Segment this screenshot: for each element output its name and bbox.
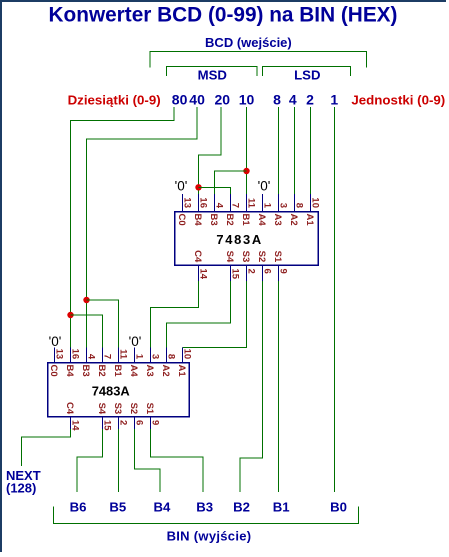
U1 pin 4 stub [214, 194, 216, 212]
svg-text:8: 8 [273, 91, 281, 107]
U1 pin 10 stub [310, 194, 312, 212]
U1 pin 16 stub [198, 194, 200, 212]
svg-text:10: 10 [239, 91, 255, 107]
wire 40 to U2.B3 [87, 107, 198, 348]
svg-text:S3: S3 [240, 251, 251, 263]
svg-text:MSD: MSD [198, 67, 227, 82]
svg-text:B1: B1 [112, 365, 123, 378]
svg-text:A4: A4 [128, 365, 139, 378]
svg-text:B3: B3 [196, 500, 213, 515]
svg-text:A2: A2 [160, 365, 171, 377]
U2 pin 1 stub [134, 348, 136, 364]
svg-text:8: 8 [165, 354, 176, 359]
svg-text:BIN (wyjście): BIN (wyjście) [167, 528, 252, 543]
wire branch 10 to U1.B3 [215, 171, 247, 195]
svg-text:3: 3 [277, 203, 288, 208]
svg-text:1: 1 [330, 91, 338, 107]
svg-text:B2: B2 [224, 214, 235, 226]
svg-text:3: 3 [149, 354, 160, 359]
svg-text:7: 7 [101, 354, 112, 359]
bracket LSD [263, 66, 351, 76]
svg-text:13: 13 [53, 349, 64, 360]
svg-text:6: 6 [133, 420, 144, 425]
wire 4 to U1.A2 [294, 107, 296, 195]
wire 1 to output B0 [334, 107, 336, 492]
U2 pin 7 stub [102, 348, 104, 364]
svg-text:S3: S3 [112, 403, 123, 415]
svg-text:6: 6 [261, 269, 272, 274]
bracket BCD (wejscie) [150, 51, 367, 67]
wire U2.S3 to output B5 [118, 429, 120, 492]
wire branch 80 to U2.B2 [71, 315, 103, 348]
U2 pin 15 stub [102, 417, 104, 430]
svg-text:B4: B4 [192, 214, 203, 227]
page border top [0, 0, 446, 2]
svg-text:LSD: LSD [294, 67, 320, 82]
svg-text:'0': '0' [175, 178, 188, 193]
svg-text:A2: A2 [288, 214, 299, 226]
svg-text:C4: C4 [64, 402, 75, 415]
svg-text:B3: B3 [208, 214, 219, 226]
svg-text:C0: C0 [48, 365, 59, 377]
U1 pin 6 stub [262, 265, 264, 282]
svg-text:B6: B6 [70, 500, 87, 515]
U1 pin 2 stub [246, 265, 248, 282]
U1 pin 8 stub [294, 194, 296, 212]
svg-text:9: 9 [149, 420, 160, 425]
svg-text:A4: A4 [256, 214, 267, 227]
svg-text:S4: S4 [224, 251, 235, 263]
svg-text:11: 11 [117, 349, 128, 360]
svg-text:S2: S2 [256, 251, 267, 263]
svg-text:16: 16 [69, 349, 80, 360]
U1 pin 9 stub [278, 265, 280, 282]
svg-text:C4: C4 [192, 250, 203, 263]
svg-text:B3: B3 [80, 365, 91, 377]
svg-text:15: 15 [229, 269, 240, 280]
svg-text:13: 13 [181, 197, 192, 208]
svg-text:4: 4 [85, 354, 96, 360]
svg-text:B0: B0 [330, 500, 347, 515]
wire U1.C4 to U2.A3 [151, 281, 199, 348]
svg-text:Jednostki (0-9): Jednostki (0-9) [351, 92, 445, 107]
wire 8 to U1.A3 [278, 107, 280, 195]
svg-text:10: 10 [181, 349, 192, 360]
svg-text:A1: A1 [304, 214, 315, 227]
svg-text:9: 9 [277, 269, 288, 274]
svg-text:(128): (128) [6, 481, 36, 496]
svg-text:B4: B4 [64, 365, 75, 378]
svg-text:'0': '0' [258, 178, 271, 193]
svg-text:11: 11 [245, 198, 256, 209]
U1 pin 3 stub [278, 194, 280, 212]
bracket BIN (wyjscie) [54, 507, 359, 524]
U1 pin 1 stub [262, 194, 264, 212]
svg-text:14: 14 [197, 269, 208, 280]
U2 pin 10 stub [182, 348, 184, 364]
svg-text:'0': '0' [49, 334, 62, 349]
U2 pin 16 stub [70, 348, 72, 364]
svg-text:A1: A1 [176, 365, 187, 378]
IC U1 7483A box [175, 212, 319, 266]
U2 pin 13 stub [54, 348, 56, 364]
svg-text:B4: B4 [153, 500, 171, 515]
wire U2.C4 to NEXT [22, 429, 71, 466]
svg-text:Konwerter BCD (0-99) na BIN (H: Konwerter BCD (0-99) na BIN (HEX) [49, 4, 398, 27]
svg-text:2: 2 [245, 269, 256, 274]
svg-text:40: 40 [189, 91, 205, 107]
U1 pin 7 stub [230, 194, 232, 212]
svg-text:A3: A3 [144, 365, 155, 377]
junction dot 10/U1.B1 [243, 168, 249, 174]
svg-text:7483A: 7483A [92, 383, 130, 398]
IC U2 7483A box [48, 363, 190, 417]
U1 pin 11 stub [246, 194, 248, 212]
wire 20 to U1.B4 [199, 107, 222, 195]
svg-text:B5: B5 [109, 500, 126, 515]
U1 pin 14 stub [198, 265, 200, 282]
wire U2.S1 to output B3 [151, 429, 204, 492]
svg-text:S4: S4 [96, 403, 107, 415]
U2 pin 11 stub [118, 348, 120, 364]
svg-text:7483A: 7483A [216, 232, 263, 247]
wire 10 to U1.B1 [246, 107, 248, 195]
svg-text:1: 1 [133, 354, 144, 360]
svg-text:S2: S2 [128, 403, 139, 415]
wire branch 20 to U1.B2 [199, 187, 231, 195]
svg-text:4: 4 [289, 91, 297, 107]
U2 pin 3 stub [150, 348, 152, 364]
svg-text:BCD (wejście): BCD (wejście) [205, 35, 292, 50]
junction dot 20/U1.B4 [195, 184, 201, 190]
bracket MSD [167, 66, 258, 76]
wire U1.S4 to U2.A2 [167, 281, 231, 348]
svg-text:1: 1 [261, 203, 272, 209]
svg-text:10: 10 [309, 197, 320, 208]
svg-text:Dziesiątki (0-9): Dziesiątki (0-9) [68, 92, 161, 107]
svg-text:80: 80 [172, 91, 188, 107]
U2 pin 8 stub [166, 348, 168, 364]
svg-text:20: 20 [215, 91, 231, 107]
svg-text:B2: B2 [96, 365, 107, 377]
U1 pin 13 stub [182, 194, 184, 212]
U2 pin 6 stub [134, 417, 136, 430]
wire 2 to U1.A1 [310, 107, 312, 195]
page border left [0, 0, 2, 552]
svg-text:2: 2 [117, 420, 128, 425]
U2 pin 4 stub [86, 348, 88, 364]
wire U1.S2 to output B2 [240, 281, 263, 492]
wire 80 to U2.B4 [71, 107, 175, 348]
svg-text:16: 16 [197, 197, 208, 208]
U1 pin 15 stub [230, 265, 232, 282]
svg-text:B1: B1 [240, 214, 251, 227]
svg-text:7: 7 [229, 203, 240, 208]
wire U1.S3 to U2.A1 [183, 281, 247, 348]
wire U2.S2 to output B4 [135, 429, 161, 492]
wire branch 40 to U2.B1 [87, 300, 119, 348]
svg-text:'0': '0' [129, 334, 142, 349]
svg-text:A3: A3 [272, 214, 283, 226]
wire U2.S4 to output B6 [77, 429, 103, 492]
svg-text:C0: C0 [176, 214, 187, 226]
svg-text:4: 4 [213, 203, 224, 209]
svg-text:B1: B1 [273, 500, 290, 515]
svg-text:S1: S1 [272, 251, 283, 263]
U2 pin 9 stub [150, 417, 152, 430]
junction dot 40/U2.B3 [83, 297, 89, 303]
U2 pin 2 stub [118, 417, 120, 430]
svg-text:S1: S1 [144, 403, 155, 415]
svg-text:2: 2 [306, 91, 314, 107]
junction dot 80/U2.B4 [67, 312, 73, 318]
svg-text:B2: B2 [233, 500, 250, 515]
wire U1.S1 to output B1 [278, 281, 280, 492]
U2 pin 14 stub [70, 417, 72, 430]
svg-text:8: 8 [293, 203, 304, 208]
